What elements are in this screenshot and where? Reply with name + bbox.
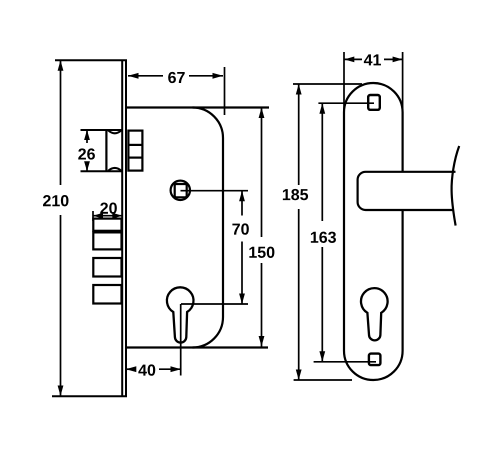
- escutcheon plate: [344, 83, 403, 380]
- latch bolt sections: [128, 131, 142, 171]
- dim 40 line left: [126, 368, 135, 370]
- dim 20 left tick: [92, 211, 94, 221]
- faceplate top line: [55, 59, 127, 61]
- label 20: [100, 203, 117, 214]
- label 40: [138, 364, 155, 375]
- dim 26 arrow up: [84, 130, 90, 140]
- label 210: [43, 195, 68, 206]
- label 70: [232, 223, 248, 234]
- dim 26 top extension: [81, 129, 123, 131]
- label 163: [311, 232, 336, 243]
- dim 210 line upper: [60, 60, 62, 185]
- dim 40 arrow right: [171, 366, 182, 372]
- dim 163 bottom extension: [314, 361, 376, 363]
- dim 41 right extension: [402, 52, 404, 113]
- dim 26 line upper: [86, 130, 88, 143]
- dim 41 line left: [344, 58, 362, 60]
- escutcheon top square hole: [368, 95, 380, 110]
- deadbolt block 1: [93, 219, 121, 231]
- latch top arc: [108, 130, 121, 133]
- faceplate right edge: [125, 60, 127, 396]
- dim 26 arrow down: [84, 161, 90, 171]
- label 185: [283, 189, 308, 200]
- dim 40 line right: [159, 368, 181, 370]
- latch bottom arc: [108, 168, 121, 171]
- dim 70 line upper: [241, 191, 243, 216]
- latch body: [105, 130, 107, 171]
- dim 67 right extension: [224, 67, 226, 115]
- dim 185 arrow down: [296, 370, 302, 381]
- latch bolt divider 2: [128, 157, 142, 159]
- dim 163 arrow up: [319, 103, 325, 114]
- keyhole left: [167, 287, 194, 342]
- dim 67 arrow right: [213, 73, 224, 79]
- dim 185 line upper: [298, 84, 300, 185]
- deadbolt block 3: [93, 258, 121, 277]
- faceplate left edge: [121, 60, 123, 396]
- dim 70 arrow up: [239, 191, 245, 202]
- lock case top line: [127, 106, 269, 108]
- handle grip: [358, 172, 456, 210]
- dim 41 arrow left: [344, 57, 354, 63]
- dim 150 arrow up: [259, 108, 265, 119]
- faceplate bottom line: [52, 395, 127, 397]
- dim 70 line lower: [241, 242, 243, 305]
- label 150: [249, 247, 274, 258]
- latch bolt divider 1: [128, 144, 142, 146]
- lock case bottom line: [127, 346, 268, 348]
- dim 67 line right: [189, 75, 223, 77]
- lock case right edge: [193, 108, 224, 348]
- dim 185 arrow up: [296, 84, 302, 95]
- dim 185 bottom extension: [294, 379, 352, 381]
- label 26: [78, 148, 95, 159]
- dim 150 line lower: [261, 263, 263, 347]
- dim 163 arrow down: [319, 351, 325, 362]
- dim 163 top extension: [318, 102, 374, 104]
- dim 163 line lower: [321, 247, 323, 362]
- dim 26 line lower: [86, 162, 88, 171]
- dim 210 line lower: [60, 215, 62, 396]
- deadbolt block 2: [93, 232, 121, 249]
- keyhole right: [361, 288, 388, 340]
- dim 40 arrow left: [126, 366, 137, 372]
- dim 67 arrow left: [128, 73, 139, 79]
- spindle square: [175, 184, 187, 197]
- dim 150 line upper: [261, 108, 263, 238]
- dim 70 bottom extension: [181, 303, 248, 305]
- dim 185 line lower: [298, 209, 300, 380]
- dim 70 arrow down: [239, 294, 245, 305]
- dim 210 arrow down: [58, 386, 64, 397]
- dim 70 top extension: [181, 190, 249, 192]
- dim 41 line right: [384, 58, 403, 60]
- dim 185 top extension: [293, 83, 362, 85]
- handle end curve: [452, 146, 460, 226]
- dim 20 arrow left: [93, 213, 103, 219]
- dim 210 arrow up: [58, 60, 64, 71]
- keyhole centerline extension: [180, 304, 182, 376]
- dim 150 arrow down: [259, 336, 265, 347]
- escutcheon bottom square hole: [369, 354, 381, 366]
- dim 41 arrow right: [393, 57, 403, 63]
- dim 41 left extension: [343, 52, 345, 113]
- dim 67 line left: [128, 75, 163, 77]
- deadbolt block 4: [93, 285, 121, 304]
- dim 26 bottom extension: [81, 170, 123, 172]
- dim 20 arrow right: [112, 213, 122, 219]
- spindle circle: [171, 181, 190, 200]
- label 41: [364, 54, 381, 65]
- dim 163 line upper: [321, 103, 323, 221]
- dim 20 line: [93, 215, 122, 217]
- label 67: [168, 72, 185, 83]
